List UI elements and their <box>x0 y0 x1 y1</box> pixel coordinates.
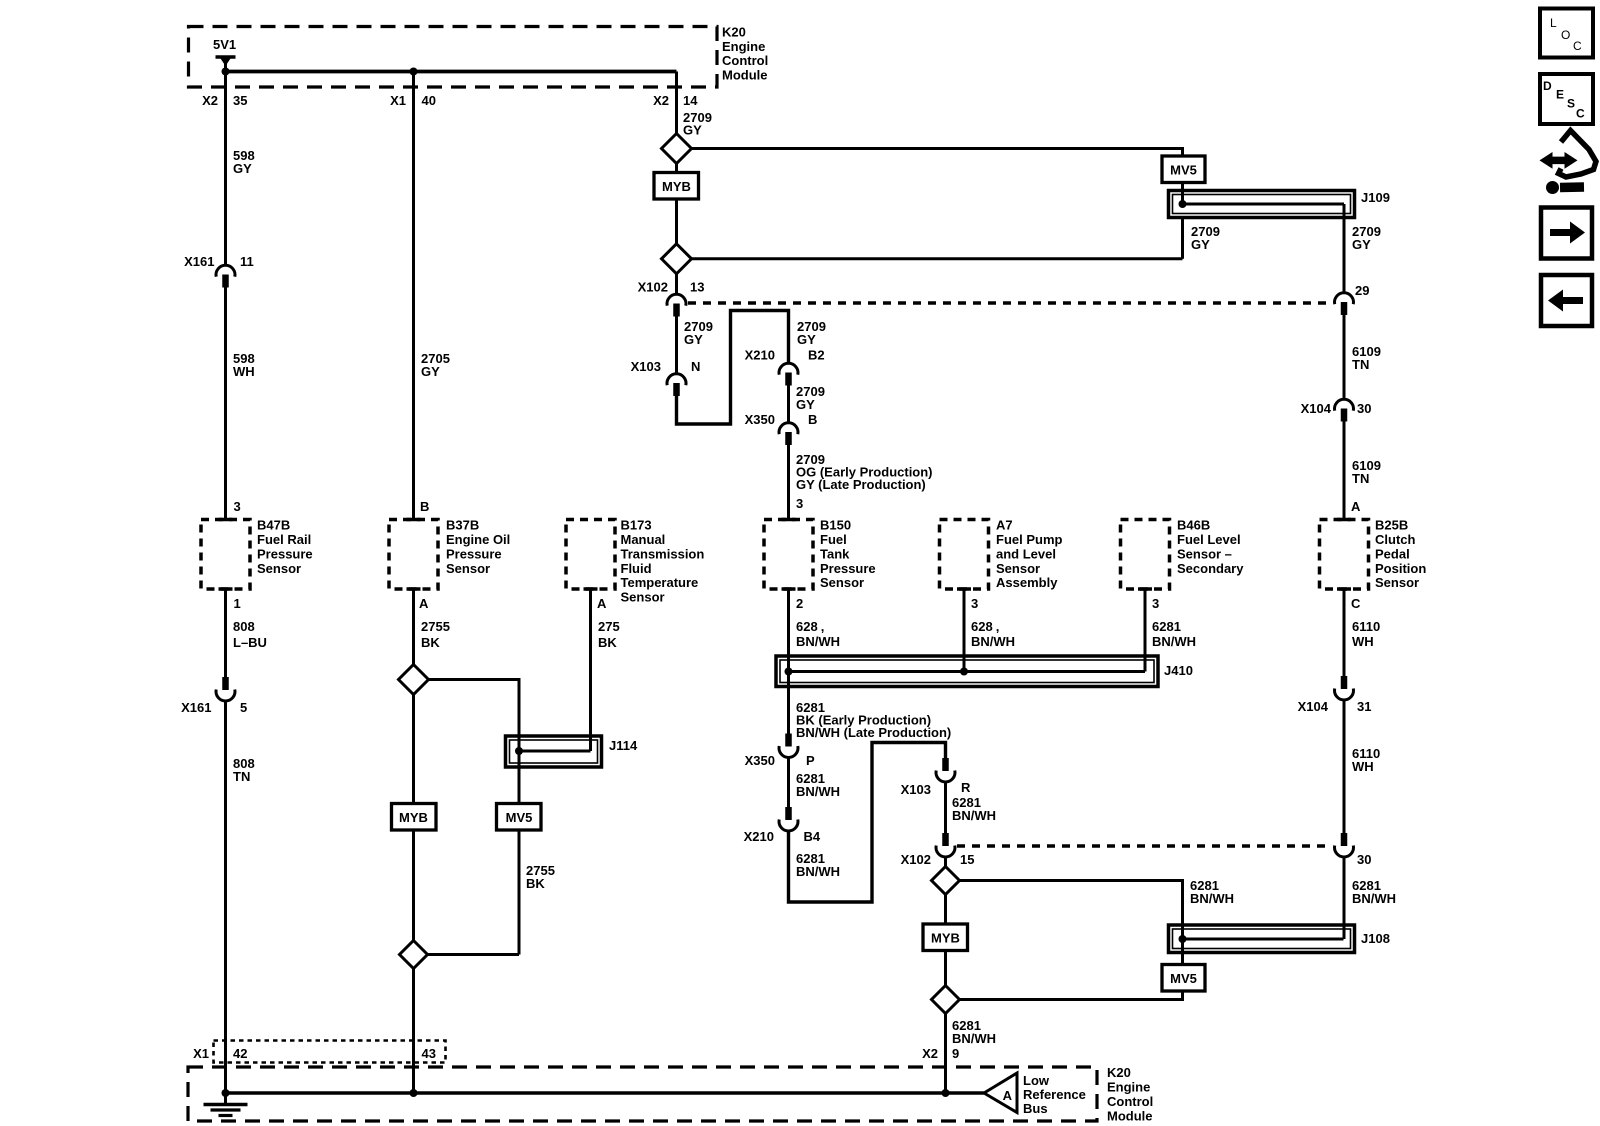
net MV5 (bottom right) <box>1162 965 1205 992</box>
svg-text:R: R <box>961 780 971 795</box>
svg-text:B25B: B25B <box>1375 518 1408 533</box>
svg-text:Transmission: Transmission <box>621 546 705 561</box>
svg-text:B: B <box>420 499 429 514</box>
connector boundary dashed (X102 row) <box>688 301 1332 305</box>
svg-text:35: 35 <box>233 93 247 108</box>
wire 2755 BK below MV5 <box>518 830 521 955</box>
connector X102 pin 13 <box>667 294 686 305</box>
svg-text:X102: X102 <box>901 852 931 867</box>
net MV5 (left) <box>497 804 542 831</box>
wire 2709 GY B <box>787 386 790 423</box>
svg-text:GY: GY <box>796 397 815 412</box>
connector X102 pin 15 <box>942 833 949 846</box>
svg-text:GY: GY <box>1352 237 1371 252</box>
svg-text:Sensor: Sensor <box>1375 575 1419 590</box>
sensor B173 Manual Transmission Fluid Temperature Sensor <box>566 520 615 590</box>
svg-text:3: 3 <box>1152 596 1159 611</box>
wire below MYB <box>944 951 947 986</box>
svg-text:Fluid: Fluid <box>621 561 652 576</box>
wire J109 left leg down <box>1181 218 1184 259</box>
svg-text:Bus: Bus <box>1023 1101 1048 1116</box>
svg-text:B2: B2 <box>808 348 825 363</box>
splice diamond top <box>662 134 692 164</box>
wire low reference bus <box>226 1091 985 1094</box>
svg-text:5V1: 5V1 <box>213 37 236 52</box>
wire to diamond <box>944 857 947 867</box>
sensor B37B Engine Oil Pressure Sensor <box>389 520 438 590</box>
svg-text:L–BU: L–BU <box>233 635 267 650</box>
svg-text:15: 15 <box>960 852 974 867</box>
wire 6281 BN/WH <box>944 782 947 834</box>
svg-text:Manual: Manual <box>621 532 666 547</box>
splice J410 <box>776 656 1158 687</box>
wire 6281 BN/WH <box>787 757 790 807</box>
svg-text:29: 29 <box>1355 283 1369 298</box>
svg-text:Sensor: Sensor <box>820 575 864 590</box>
splice diamond lower 2 <box>932 986 960 1014</box>
svg-text:D: D <box>1543 79 1552 93</box>
wire jog to X210 column <box>677 311 789 425</box>
svg-text:Clutch: Clutch <box>1375 532 1416 547</box>
svg-text:BK: BK <box>421 635 440 650</box>
svg-text:BK: BK <box>598 635 617 650</box>
svg-text:L: L <box>1550 16 1557 30</box>
splice diamond on 2755 BK <box>399 665 429 695</box>
svg-text:B: B <box>808 412 817 427</box>
wire branch to J114 <box>429 680 520 737</box>
wire branch to J108 <box>960 881 1183 926</box>
svg-text:GY: GY <box>684 332 703 347</box>
svg-text:B150: B150 <box>820 518 851 533</box>
svg-text:TN: TN <box>1352 471 1369 486</box>
wire 6109 TN to B25B <box>1343 422 1346 520</box>
svg-text:MV5: MV5 <box>506 810 533 825</box>
svg-text:30: 30 <box>1357 401 1371 416</box>
wire 2755 BK <box>412 589 415 665</box>
pin A of B173 <box>584 587 598 591</box>
sensor B150 Fuel Tank Pressure Sensor <box>782 518 796 522</box>
svg-text:A: A <box>1351 499 1361 514</box>
svg-text:C: C <box>1573 39 1582 53</box>
sidebar redirect icon <box>1540 131 1597 195</box>
svg-text:Tank: Tank <box>820 546 850 561</box>
svg-text:GY: GY <box>233 161 252 176</box>
svg-text:WH: WH <box>1352 759 1374 774</box>
svg-text:A: A <box>419 596 429 611</box>
pin 3 of B46B <box>1138 587 1152 591</box>
connector boundary dashed (X102 lower row) <box>957 844 1332 848</box>
pin 1 of B47B <box>219 587 233 591</box>
svg-text:Module: Module <box>722 67 768 82</box>
svg-text:K20: K20 <box>722 25 746 40</box>
svg-text:X161: X161 <box>184 254 214 269</box>
sidebar back arrow button <box>1541 275 1592 326</box>
pin C of B25B <box>1337 587 1351 591</box>
svg-text:Engine Oil: Engine Oil <box>446 532 510 547</box>
wire 6281 BN/WH to J108 <box>1343 857 1346 940</box>
sensor B25B Clutch Pedal Position Sensor <box>1320 520 1369 590</box>
low reference bus terminator A <box>984 1073 1017 1113</box>
sensor B47B Fuel Rail Pressure Sensor <box>201 520 250 590</box>
wire 6109 TN below 29 <box>1343 315 1346 399</box>
svg-text:BN/WH: BN/WH <box>796 784 840 799</box>
pin 3 of A7 <box>957 587 971 591</box>
svg-text:WH: WH <box>1352 634 1374 649</box>
svg-text:B4: B4 <box>804 829 821 844</box>
wire 2709 GY from X2-14 <box>675 72 678 134</box>
svg-text:Fuel Rail: Fuel Rail <box>257 532 311 547</box>
wire MV5 return to diamond <box>960 991 1183 1000</box>
svg-text:X103: X103 <box>901 782 931 797</box>
svg-text:BN/WH: BN/WH <box>971 634 1015 649</box>
svg-text:BN/WH: BN/WH <box>1190 891 1234 906</box>
wire 6281 below J410 <box>787 687 790 734</box>
junction at 5V1/X2-35 <box>222 68 230 76</box>
wire return to diamond <box>692 257 1183 260</box>
engine control module K20 (bottom) <box>188 1067 1097 1121</box>
wire jog to X103 column <box>789 743 946 903</box>
splice J114 <box>506 736 602 767</box>
svg-text:MYB: MYB <box>662 179 691 194</box>
engine control module K20 (top) <box>189 27 718 88</box>
svg-text:GY (Late Production): GY (Late Production) <box>796 477 926 492</box>
svg-text:2: 2 <box>796 596 803 611</box>
svg-text:628,: 628, <box>796 619 824 634</box>
connector X104 pin 30 <box>1335 399 1354 410</box>
svg-text:X1: X1 <box>193 1046 209 1061</box>
svg-text:Fuel Pump: Fuel Pump <box>996 532 1063 547</box>
svg-text:Reference: Reference <box>1023 1087 1086 1102</box>
pin 2 of B150 <box>782 587 796 591</box>
svg-text:9: 9 <box>952 1046 959 1061</box>
wire 6281 BN/WH from B46B <box>1144 589 1147 672</box>
wire 808 L-BU <box>224 589 227 677</box>
connector X350 pin B <box>779 423 798 434</box>
wire 598 GY from X2-35 <box>224 72 227 266</box>
wire 628 BN/WH from B150 <box>787 589 790 687</box>
svg-text:30: 30 <box>1357 852 1371 867</box>
svg-text:A7: A7 <box>996 518 1013 533</box>
svg-text:Pressure: Pressure <box>257 546 313 561</box>
wire 6110 WH to 30 <box>1343 700 1346 834</box>
svg-text:MYB: MYB <box>399 810 428 825</box>
svg-text:N: N <box>691 359 700 374</box>
wire down to ground bus <box>412 969 415 1094</box>
wire to X102-13 <box>675 274 678 295</box>
svg-text:Module: Module <box>1107 1109 1153 1124</box>
wire MYB to diamond 2 <box>675 199 678 244</box>
svg-text:C: C <box>1351 596 1361 611</box>
svg-text:GY: GY <box>1191 237 1210 252</box>
svg-text:BK: BK <box>526 876 545 891</box>
svg-text:X2: X2 <box>922 1046 938 1061</box>
svg-text:P: P <box>806 753 815 768</box>
splice diamond joining MV5 branch <box>400 941 428 969</box>
wire 275 BK from B173 <box>589 589 592 751</box>
pin A of B37B <box>407 587 421 591</box>
connector X210 pin B2 <box>779 363 798 374</box>
wire branch from diamond to MV5 wire <box>428 953 520 956</box>
sensor B46B Fuel Level Sensor - Secondary <box>1121 520 1170 590</box>
svg-text:Sensor: Sensor <box>996 561 1040 576</box>
svg-text:Sensor: Sensor <box>257 561 301 576</box>
svg-text:B37B: B37B <box>446 518 479 533</box>
connector pin 29 <box>1335 293 1354 304</box>
svg-text:MYB: MYB <box>931 931 960 946</box>
sidebar DESC button <box>1540 74 1593 124</box>
svg-text:MV5: MV5 <box>1170 971 1197 986</box>
svg-text:BN/WH: BN/WH <box>1152 634 1196 649</box>
svg-text:Control: Control <box>1107 1094 1153 1109</box>
svg-text:B47B: B47B <box>257 518 290 533</box>
svg-text:Pressure: Pressure <box>820 561 876 576</box>
svg-text:Assembly: Assembly <box>996 575 1058 590</box>
svg-text:J114: J114 <box>609 738 638 753</box>
svg-text:Position: Position <box>1375 561 1426 576</box>
svg-text:Temperature: Temperature <box>621 575 699 590</box>
svg-text:Sensor: Sensor <box>446 561 490 576</box>
svg-text:40: 40 <box>422 93 436 108</box>
connector X161 pin 5 <box>222 677 229 690</box>
svg-text:B173: B173 <box>621 518 652 533</box>
wire 2709 GY below X102-13 <box>675 317 678 374</box>
svg-text:TN: TN <box>233 769 250 784</box>
svg-text:B46B: B46B <box>1177 518 1210 533</box>
svg-text:5: 5 <box>240 700 247 715</box>
svg-text:Low: Low <box>1023 1073 1050 1088</box>
svg-text:808: 808 <box>233 619 255 634</box>
svg-text:14: 14 <box>683 93 698 108</box>
svg-text:A: A <box>597 596 607 611</box>
net MYB (left) <box>412 695 415 804</box>
wire 5V bus inside ECM <box>226 70 677 74</box>
svg-text:MV5: MV5 <box>1170 163 1197 178</box>
net MYB (top) <box>675 164 678 173</box>
svg-text:X102: X102 <box>638 280 668 295</box>
connector pin 30 (lower) <box>1341 833 1348 846</box>
junction at X1-40 <box>410 68 418 76</box>
sidebar LOC button <box>1540 9 1593 58</box>
svg-text:K20: K20 <box>1107 1065 1131 1080</box>
svg-text:275: 275 <box>598 619 620 634</box>
svg-text:BN/WH: BN/WH <box>1352 891 1396 906</box>
svg-text:GY: GY <box>683 123 702 138</box>
svg-text:X350: X350 <box>745 753 775 768</box>
svg-text:6110: 6110 <box>1352 619 1380 634</box>
svg-text:BN/WH: BN/WH <box>952 808 996 823</box>
svg-text:1: 1 <box>234 596 241 611</box>
connector X161 pin 11 <box>216 265 235 276</box>
wire 6281 BN/WH to X2-9 <box>944 1014 947 1094</box>
svg-text:X350: X350 <box>745 412 775 427</box>
splice J109 <box>1169 191 1355 218</box>
svg-text:X104: X104 <box>1301 401 1332 416</box>
svg-text:2755: 2755 <box>421 619 450 634</box>
ground <box>224 1093 227 1105</box>
svg-text:BN/WH: BN/WH <box>796 634 840 649</box>
connector X104 pin 31 <box>1341 676 1348 689</box>
wire 2705 GY from X1-40 <box>412 72 415 520</box>
wire 2709 OG/GY to B150 <box>787 445 790 520</box>
wire 628 BN/WH from A7 <box>963 589 966 672</box>
svg-text:42: 42 <box>233 1046 247 1061</box>
connector X1 pins 42 43 <box>214 1041 446 1063</box>
svg-text:C: C <box>1576 107 1585 121</box>
net MV5 (top right) <box>1162 156 1205 183</box>
svg-text:X103: X103 <box>631 359 661 374</box>
svg-text:31: 31 <box>1357 699 1371 714</box>
splice diamond lower 1 <box>932 867 960 895</box>
svg-text:X104: X104 <box>1298 699 1329 714</box>
connector X210 pin B4 <box>785 807 792 820</box>
svg-text:3: 3 <box>971 596 978 611</box>
svg-text:WH: WH <box>233 364 255 379</box>
wire J109 right leg down to 29 <box>1343 204 1346 293</box>
svg-text:Pressure: Pressure <box>446 546 502 561</box>
wire 5V1 stub <box>224 58 227 72</box>
svg-text:S: S <box>1567 97 1575 111</box>
svg-text:Sensor –: Sensor – <box>1177 546 1232 561</box>
svg-text:J410: J410 <box>1164 663 1193 678</box>
svg-text:Engine: Engine <box>1107 1080 1150 1095</box>
wire 808 TN <box>224 701 227 1094</box>
svg-text:GY: GY <box>797 332 816 347</box>
svg-text:X210: X210 <box>745 348 775 363</box>
svg-text:X210: X210 <box>744 829 774 844</box>
svg-text:X161: X161 <box>181 700 211 715</box>
svg-text:E: E <box>1556 88 1564 102</box>
svg-text:BN/WH (Late Production): BN/WH (Late Production) <box>796 725 951 740</box>
svg-text:3: 3 <box>234 499 241 514</box>
wire 598 WH <box>224 288 227 520</box>
svg-text:Sensor: Sensor <box>621 590 665 605</box>
connector X350 pin P <box>785 734 792 747</box>
svg-text:3: 3 <box>796 496 803 511</box>
junction at 808 TN <box>222 1089 230 1097</box>
svg-text:GY: GY <box>421 364 440 379</box>
svg-text:X2: X2 <box>653 93 669 108</box>
wire 6110 WH <box>1343 589 1346 676</box>
junction at 2755 BK <box>410 1089 418 1097</box>
svg-text:Pedal: Pedal <box>1375 546 1410 561</box>
svg-text:Fuel Level: Fuel Level <box>1177 532 1241 547</box>
svg-text:X1: X1 <box>390 93 406 108</box>
svg-text:J108: J108 <box>1361 931 1390 946</box>
wire J108 through to MV5 <box>1181 925 1184 965</box>
svg-text:and Level: and Level <box>996 546 1056 561</box>
svg-text:X2: X2 <box>202 93 218 108</box>
svg-text:43: 43 <box>422 1046 436 1061</box>
wire MV5 to J109 <box>1181 183 1184 205</box>
svg-text:Fuel: Fuel <box>820 532 847 547</box>
connector X103 pin N <box>667 374 686 385</box>
junction at X2-9 <box>942 1089 950 1097</box>
sensor A7 Fuel Pump and Level Sensor Assembly <box>940 520 989 590</box>
svg-text:13: 13 <box>690 280 704 295</box>
svg-text:Secondary: Secondary <box>1177 561 1244 576</box>
svg-text:TN: TN <box>1352 357 1369 372</box>
wire branch to MV5 right <box>692 149 1183 157</box>
net MYB (bottom) <box>944 895 947 925</box>
svg-text:628,: 628, <box>971 619 999 634</box>
splice J108 <box>1169 925 1355 953</box>
splice diamond 2 <box>662 244 692 274</box>
svg-text:6281: 6281 <box>1152 619 1181 634</box>
svg-text:11: 11 <box>240 254 254 269</box>
svg-text:Engine: Engine <box>722 39 765 54</box>
svg-text:O: O <box>1561 28 1570 42</box>
svg-text:Control: Control <box>722 53 768 68</box>
svg-text:BN/WH: BN/WH <box>796 864 840 879</box>
wire through J114 down to MV5 <box>518 736 521 804</box>
sidebar next arrow button <box>1541 208 1592 259</box>
wire below MYB <box>412 830 415 941</box>
svg-text:BN/WH: BN/WH <box>952 1031 996 1046</box>
svg-text:J109: J109 <box>1361 190 1390 205</box>
svg-text:A: A <box>1003 1088 1013 1103</box>
connector X103 pin R <box>942 758 949 771</box>
